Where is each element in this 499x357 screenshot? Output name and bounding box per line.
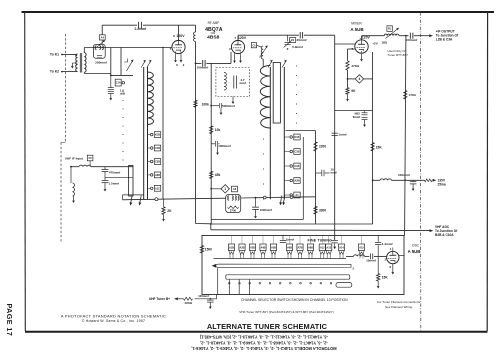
svg-text:A2B: A2B	[239, 246, 244, 249]
svg-text:9K: 9K	[351, 89, 356, 93]
svg-text:1.4mmf: 1.4mmf	[382, 242, 394, 246]
svg-text:+2V: +2V	[372, 42, 377, 46]
svg-text:A14: A14	[339, 246, 344, 249]
svg-text:A12: A12	[320, 246, 325, 249]
svg-text:OR: OR	[211, 31, 216, 35]
svg-text:ALTERNATE TUNER SCHEMATIC: ALTERNATE TUNER SCHEMATIC	[207, 322, 328, 331]
svg-text:1: 1	[224, 187, 226, 191]
svg-text:A3B: A3B	[250, 246, 255, 249]
svg-text:mmf: mmf	[240, 81, 248, 85]
svg-text:A1B: A1B	[229, 246, 234, 249]
svg-text:RF AMP: RF AMP	[208, 21, 220, 25]
svg-text:A15: A15	[359, 246, 364, 249]
svg-text:A PHOTOFACT STANDARD NOTATION: A PHOTOFACT STANDARD NOTATION SCHEMATIC	[61, 314, 166, 319]
svg-text:FINE TUNING: FINE TUNING	[308, 238, 333, 242]
svg-text:K1B: K1B	[294, 136, 299, 139]
svg-text:CHANNEL SELECTOR SWITCH SHOWN: CHANNEL SELECTOR SWITCH SHOWN IN CHANNEL…	[241, 298, 348, 302]
svg-text:470Ω: 470Ω	[351, 64, 359, 68]
svg-text:PAGE 17: PAGE 17	[5, 304, 14, 337]
svg-text:To K1: To K1	[50, 53, 59, 57]
svg-text:K1B: K1B	[155, 134, 160, 137]
svg-text:220Ω: 220Ω	[185, 301, 193, 305]
svg-text:470Ω: 470Ω	[409, 93, 417, 97]
svg-text:C1B: C1B	[294, 151, 299, 154]
svg-text:8mmf: 8mmf	[353, 115, 361, 119]
svg-text:120V: 120V	[362, 36, 371, 40]
svg-text:© Howard W. Sams & Co., Inc. 1: © Howard W. Sams & Co., Inc. 1957	[82, 319, 145, 323]
svg-text:3300: 3300	[319, 209, 326, 213]
svg-text:100mmf: 100mmf	[406, 38, 419, 42]
svg-text:A6B: A6B	[287, 246, 292, 249]
svg-text:1.5mmf: 1.5mmf	[109, 182, 120, 186]
svg-text:100mmf: 100mmf	[398, 173, 411, 177]
svg-text:20mmf: 20mmf	[297, 38, 308, 42]
svg-text:1000mmf: 1000mmf	[222, 104, 235, 108]
svg-text:5-9mmf: 5-9mmf	[292, 45, 303, 49]
svg-text:1500: 1500	[205, 248, 212, 252]
svg-text:18Ω: 18Ω	[381, 40, 387, 44]
svg-text:15K: 15K	[376, 145, 383, 149]
svg-text:100k: 100k	[202, 103, 210, 107]
svg-text:For Tuner Filament Connections: For Tuner Filament Connections,	[377, 300, 421, 304]
svg-text:4: 4	[359, 77, 361, 81]
svg-text:120V: 120V	[176, 34, 185, 38]
svg-text:1mmf: 1mmf	[286, 238, 295, 242]
svg-text:A 5UB: A 5UB	[350, 27, 364, 32]
svg-text:2.2mmf: 2.2mmf	[135, 27, 147, 31]
svg-text:25ma: 25ma	[438, 183, 446, 187]
svg-text:A5B: A5B	[271, 246, 276, 249]
svg-text:MOTOROLA MODELS Y14K2-1, -2, -: MOTOROLA MODELS Y14K2-1, -2, -3, Y14K4-1…	[191, 346, 336, 351]
svg-text:250mmf: 250mmf	[95, 61, 108, 65]
svg-text:A 5UB: A 5UB	[408, 249, 421, 254]
svg-text:Tuner RTT-86Y: Tuner RTT-86Y	[388, 53, 409, 57]
svg-text:B3B & C10A: B3B & C10A	[435, 233, 454, 237]
svg-text:100mmf: 100mmf	[196, 66, 209, 70]
svg-text:A13: A13	[326, 246, 331, 249]
svg-text:A1C: A1C	[155, 187, 160, 190]
svg-text:C1B: C1B	[294, 165, 299, 168]
svg-text:A8B: A8B	[308, 246, 313, 249]
svg-text:VHF Tuner WTT-86Y (Part #24T41: VHF Tuner WTT-86Y (Part #24T4157) & WTT-…	[239, 310, 333, 314]
svg-text:L2B & C3A: L2B & C3A	[436, 38, 453, 42]
svg-text:1000mmf: 1000mmf	[218, 144, 231, 148]
svg-text:UHF Tuner B+: UHF Tuner B+	[149, 297, 170, 301]
svg-text:2200: 2200	[319, 145, 326, 149]
svg-text:45k: 45k	[215, 173, 221, 177]
svg-text:15K: 15K	[382, 276, 389, 280]
svg-text:2700: 2700	[230, 209, 237, 213]
svg-text:10k: 10k	[215, 128, 221, 132]
svg-text:C1B: C1B	[155, 147, 160, 150]
svg-text:2K: 2K	[167, 209, 172, 213]
svg-text:-2, -3, Y14K7-1, -2, -3, Y14K8: -2, -3, Y14K7-1, -2, -3, Y14K8-1, -2, -3…	[200, 340, 328, 345]
svg-text:10mmf: 10mmf	[366, 259, 376, 263]
svg-text:100mmf: 100mmf	[198, 294, 209, 298]
svg-text:A7B: A7B	[297, 246, 302, 249]
svg-text:See Filament Wiring.: See Filament Wiring.	[385, 305, 413, 309]
svg-text:4BS8: 4BS8	[207, 35, 220, 41]
svg-text:A3B: A3B	[155, 174, 160, 177]
svg-text:120V: 120V	[238, 36, 247, 40]
svg-text:A2B: A2B	[294, 180, 299, 183]
svg-text:1000mmf: 1000mmf	[260, 208, 272, 212]
svg-text:-3, Y14K11-1, -2, -3, Y14K12-1: -3, Y14K11-1, -2, -3, Y14K12-1, -2, -3, …	[199, 334, 328, 339]
svg-text:470mmf: 470mmf	[109, 170, 120, 174]
svg-text:1mmf: 1mmf	[338, 132, 347, 136]
svg-text:UHF IF Input: UHF IF Input	[65, 157, 83, 161]
svg-text:C3B: C3B	[155, 161, 160, 164]
svg-text:MIXER: MIXER	[351, 22, 362, 26]
svg-text:mmf: mmf	[331, 170, 337, 174]
svg-text:To K2: To K2	[50, 70, 59, 74]
svg-text:mmf: mmf	[120, 92, 125, 95]
svg-text:OSC: OSC	[412, 243, 420, 247]
svg-text:C1A: C1A	[116, 82, 121, 85]
svg-text:A4B: A4B	[260, 246, 265, 249]
